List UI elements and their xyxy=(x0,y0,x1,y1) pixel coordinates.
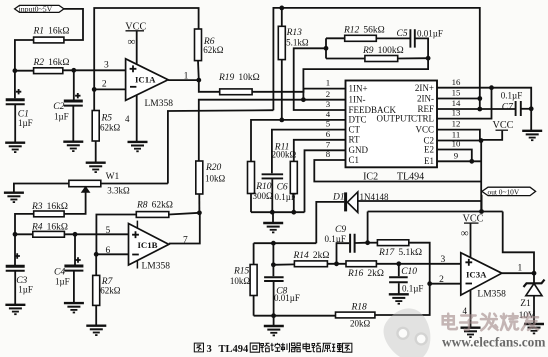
svg-text:1IN+: 1IN+ xyxy=(349,83,368,93)
node out (out 0~10V) flag xyxy=(482,187,536,195)
svg-text:D1: D1 xyxy=(332,192,345,202)
wire ground bus stem xyxy=(272,212,274,222)
svg-text:∞: ∞ xyxy=(461,227,469,239)
label VCC underline (IC3A) xyxy=(464,222,479,224)
wire TL494 pin4 DTC to R10 xyxy=(251,120,346,162)
plus C4 xyxy=(75,257,80,262)
svg-text:1µF: 1µF xyxy=(54,112,69,122)
junction IC1A pin2 node xyxy=(92,87,97,92)
svg-text:3: 3 xyxy=(441,255,446,265)
wire C10 top lead xyxy=(398,264,400,276)
ground C7 xyxy=(522,131,542,140)
svg-text:1: 1 xyxy=(518,264,523,274)
ground C4 xyxy=(64,303,84,312)
junction pin14 REF / rail xyxy=(477,107,482,112)
resistor R1 xyxy=(34,37,64,43)
wire out rail xyxy=(368,211,503,213)
wire IC1A pin4 to ground xyxy=(136,95,138,141)
wire TL494 pin11 C2 lead xyxy=(437,140,481,142)
wire C5 right to pin2 net xyxy=(303,38,428,99)
resistor R19 xyxy=(220,89,252,95)
svg-text:R162kΩ: R162kΩ xyxy=(347,269,384,279)
junction rail / R13 top xyxy=(279,6,284,11)
svg-text:R142kΩ: R142kΩ xyxy=(293,251,330,261)
svg-text:OUTPUT: OUTPUT xyxy=(377,113,413,123)
junction R14 left node xyxy=(271,262,276,267)
wire Z1 top lead xyxy=(533,273,535,283)
wire bus243 xyxy=(254,242,317,244)
junction pin2 / C5-net xyxy=(301,97,306,102)
wire R2 left lead xyxy=(15,70,34,72)
svg-text:IC1A: IC1A xyxy=(135,75,156,85)
op-amp IC1B plus input mark xyxy=(132,231,139,238)
capacitor C6 plates xyxy=(262,174,284,178)
wire C2 to ground xyxy=(72,106,74,141)
resistor R18 xyxy=(336,312,375,318)
junction C9 right / R17 xyxy=(365,240,370,245)
plus C1 xyxy=(16,89,21,94)
wire input to R1 xyxy=(64,9,83,40)
svg-text:7: 7 xyxy=(183,235,188,245)
ground IC3A pin4 xyxy=(461,328,481,337)
svg-text:C1: C1 xyxy=(349,155,360,165)
svg-text:4: 4 xyxy=(326,109,331,119)
svg-text:LM358: LM358 xyxy=(145,99,174,109)
wire R5 top lead xyxy=(93,89,95,110)
svg-text:300Ω: 300Ω xyxy=(253,191,274,201)
wire R14 left lead xyxy=(273,263,294,265)
wire R5 to ground xyxy=(95,141,97,162)
junction node A (R1/R2/C1) xyxy=(13,68,18,73)
svg-text:20kΩ: 20kΩ xyxy=(350,319,371,329)
wire C10 bottom lead xyxy=(398,283,400,293)
wire R18 ground wire xyxy=(254,315,336,317)
wire C4 top lead xyxy=(74,234,76,265)
wire TL494 pin13 CTRL up to pin16 xyxy=(437,88,492,119)
op-amp U3 IC3A triangle xyxy=(461,253,502,295)
ground IC1A pin4 xyxy=(128,142,148,151)
svg-text:C10: C10 xyxy=(401,267,417,277)
svg-text:C6: C6 xyxy=(277,182,288,192)
svg-text:2IN-: 2IN- xyxy=(417,93,434,103)
svg-text:16: 16 xyxy=(452,77,461,87)
svg-text:10kΩ: 10kΩ xyxy=(230,276,251,286)
svg-text:DTC: DTC xyxy=(349,115,367,125)
op-amp IC1B top pin stub xyxy=(136,221,138,228)
resistor R16 xyxy=(346,261,376,267)
ground W1 xyxy=(4,193,24,202)
wire IC3A pin4 to ground xyxy=(470,290,472,327)
wire R8 left to pin6 node xyxy=(96,215,136,255)
resistor R2 xyxy=(34,68,63,74)
wire C8 bottom lead xyxy=(273,282,275,316)
svg-text:1N4148: 1N4148 xyxy=(360,192,389,202)
svg-text:GND: GND xyxy=(349,145,369,155)
svg-text:R316kΩ: R316kΩ xyxy=(31,202,68,212)
resistor R11 xyxy=(290,161,297,193)
IC U2 TL494 box xyxy=(346,81,438,168)
junction pin6/R7/R8 node xyxy=(94,252,99,257)
svg-text:2: 2 xyxy=(439,275,444,285)
caption 回路控制器电路原理图 glyphs xyxy=(250,343,259,352)
wire TL494 pin8 C1 to E1/E2 net xyxy=(314,160,481,182)
wire R16 to IC3A pin3 xyxy=(376,263,460,265)
wire W1 wiper to R3 xyxy=(64,192,86,214)
resistor R17 xyxy=(377,240,408,246)
junction R14/R16/C9 node xyxy=(334,261,339,266)
wire C2 top lead xyxy=(73,70,75,99)
op-amp IC3A plus input mark xyxy=(465,259,472,266)
wire IC1B pin6 lead xyxy=(96,253,128,255)
ground C10 xyxy=(389,294,409,303)
resistor R12 xyxy=(345,35,377,41)
svg-text:VCC: VCC xyxy=(415,124,434,134)
svg-text:14: 14 xyxy=(452,98,461,108)
svg-text:5: 5 xyxy=(106,226,111,236)
op-amp IC3A minus input mark xyxy=(466,283,473,285)
wire W1 left to ground xyxy=(14,184,69,193)
junction R4/C4 node xyxy=(73,232,78,237)
wire TL494 pin14 REF to C7 xyxy=(437,108,515,110)
junction R12/R9 node xyxy=(324,46,329,51)
svg-text:input0~5V: input0~5V xyxy=(19,5,53,14)
potentiometer W1 wiper arrow xyxy=(82,187,90,193)
junction output/Z1 node xyxy=(532,271,537,276)
svg-text:R1910kΩ: R1910kΩ xyxy=(218,73,260,83)
wire out flag to rail xyxy=(481,195,483,212)
junction pin15 2IN- / rail xyxy=(477,96,482,101)
junction C6/ground bus xyxy=(270,210,275,215)
wire R12 to C5 xyxy=(376,37,409,39)
wire VCC net vertical to out rail xyxy=(480,141,482,212)
wire VCC lead IC3A pin8 xyxy=(470,223,472,257)
wire IC3A pin2 lead xyxy=(430,283,461,285)
ground C1 xyxy=(5,143,25,152)
svg-text:www.elecfans.com: www.elecfans.com xyxy=(442,335,545,350)
wire R17 left lead xyxy=(368,242,378,244)
label VCC underline (TL494) xyxy=(496,129,509,131)
wire R8 right lead xyxy=(169,213,200,215)
op-amp IC1A plus input mark xyxy=(130,65,137,72)
ground C2 xyxy=(63,142,83,151)
wire C3 to ground xyxy=(14,271,16,304)
svg-text:0.01µF: 0.01µF xyxy=(274,293,300,303)
wire pin2 node down to R18 xyxy=(375,284,430,315)
svg-text:RT: RT xyxy=(349,135,360,145)
svg-text:R15: R15 xyxy=(233,267,250,277)
wire TL494 pin6 RT to R11 xyxy=(294,140,346,162)
capacitor C9 plates xyxy=(350,234,355,253)
wire R3 left lead xyxy=(15,214,34,234)
svg-text:R862kΩ: R862kΩ xyxy=(136,201,173,211)
junction pin11/VCC node xyxy=(479,138,484,143)
svg-text:1IN-: 1IN- xyxy=(349,95,366,105)
watermark text 电子发烧友 xyxy=(443,314,457,330)
wire TL494 pin2 to R20 xyxy=(199,100,346,161)
svg-text:∞: ∞ xyxy=(128,36,136,48)
svg-text:1µF: 1µF xyxy=(18,285,33,295)
svg-text:15: 15 xyxy=(452,88,461,98)
svg-text:C2: C2 xyxy=(53,102,64,112)
capacitor C8 plates xyxy=(264,277,284,281)
svg-text:1: 1 xyxy=(184,71,189,81)
ground Z1 xyxy=(524,324,544,333)
svg-text:2IN+: 2IN+ xyxy=(415,83,434,93)
capacitor C1 xyxy=(6,98,25,101)
wire C8 net vertical xyxy=(272,243,274,276)
svg-text:9: 9 xyxy=(454,150,459,160)
svg-text:R18: R18 xyxy=(351,302,368,312)
junction R8/R20/output node xyxy=(197,210,202,215)
wire TL494 pin12 VCC lead xyxy=(437,130,480,141)
wire D1 cathode to bus243 xyxy=(316,202,344,243)
wire R11 bottom lead xyxy=(293,194,295,213)
wire C3 top lead xyxy=(14,234,16,265)
svg-text:R20: R20 xyxy=(205,163,222,173)
wire R9 right lead xyxy=(398,57,428,59)
junction R13/DTC xyxy=(279,118,284,123)
wire R2 to IC1A pin3 xyxy=(63,69,126,71)
svg-text:VCC: VCC xyxy=(493,120,514,131)
svg-text:0.1µF: 0.1µF xyxy=(402,283,423,293)
watermark logo pick xyxy=(376,301,442,357)
wire rail down to REF xyxy=(479,99,481,110)
op-amp IC1A minus input mark xyxy=(130,86,136,88)
svg-text:3: 3 xyxy=(207,344,212,355)
wire ground bus xyxy=(251,211,305,213)
plus C2 xyxy=(75,93,80,98)
resistor R3 xyxy=(34,211,64,217)
junction C10 tap xyxy=(396,261,401,266)
svg-text:0.1µF: 0.1µF xyxy=(325,234,346,244)
diode D1 1N4148 xyxy=(347,192,357,213)
svg-text:1µF: 1µF xyxy=(18,118,33,128)
wire R13 bottom to DTC xyxy=(281,60,283,120)
svg-text:7: 7 xyxy=(326,139,331,149)
capacitor C5 plates xyxy=(410,29,414,47)
svg-text:0.1µF: 0.1µF xyxy=(501,90,522,100)
svg-text:IC3A: IC3A xyxy=(466,270,487,280)
svg-text:12: 12 xyxy=(452,119,461,129)
wire VCC symbol to pin11 node xyxy=(481,131,502,140)
wire R9 left lead xyxy=(326,58,365,60)
svg-text:C7: C7 xyxy=(502,102,514,112)
zener diode Z1 symbol xyxy=(526,284,542,296)
svg-text:1: 1 xyxy=(326,78,330,88)
wire TL494 pin9 E1 lead xyxy=(437,160,481,162)
wire IC1B output xyxy=(169,213,200,244)
svg-text:2: 2 xyxy=(326,89,330,99)
wire C4 to ground xyxy=(73,271,75,303)
wire C1 top lead xyxy=(14,71,16,99)
wire R15 bottom lead xyxy=(253,296,255,316)
svg-text:10kΩ: 10kΩ xyxy=(205,174,226,184)
svg-text:LM358: LM358 xyxy=(477,290,506,300)
wire R15 top lead xyxy=(253,243,255,264)
wire C9 left lead xyxy=(337,243,350,264)
plus C3 xyxy=(15,253,20,258)
svg-text:62kΩ: 62kΩ xyxy=(100,123,121,133)
resistor R9 xyxy=(365,56,398,62)
wire C1 to ground xyxy=(14,104,16,142)
wire E-net to D1 anode xyxy=(358,200,481,202)
junction C7/pin16 vertical xyxy=(529,106,534,111)
svg-text:IC1B: IC1B xyxy=(138,240,158,250)
svg-text:C5: C5 xyxy=(397,29,408,39)
ground bus (C6/R10/R11/GND) xyxy=(263,223,283,232)
label VCC underline (IC1A) xyxy=(126,30,145,32)
svg-text:3.3kΩ: 3.3kΩ xyxy=(107,186,130,196)
junction E1/E2 tie xyxy=(469,159,474,164)
wire W1 right lead xyxy=(101,183,168,185)
svg-text:0.01µF: 0.01µF xyxy=(417,29,443,39)
wire VCC lead IC1A pin8 xyxy=(136,31,138,65)
junction out rail / vertical xyxy=(479,209,484,214)
wire C6 bottom lead xyxy=(271,179,273,212)
wire TL494 pin16 2IN+ to C7 right/ground xyxy=(437,88,531,130)
svg-text:CTRL: CTRL xyxy=(411,113,434,123)
wire R4 to IC1B pin5 xyxy=(64,233,128,235)
svg-text:W1: W1 xyxy=(106,172,120,182)
wire rail right down to IC3A output xyxy=(503,212,534,274)
svg-text:6: 6 xyxy=(106,246,111,256)
wire ground stem C8 xyxy=(273,316,275,326)
resistor R6 xyxy=(195,29,202,61)
wire IC1A pin2 node vertical + top feedback to R6 xyxy=(94,8,198,89)
wire R19 to TL494 pin1 xyxy=(252,89,345,92)
wire R1 left down to node A xyxy=(15,40,34,71)
wire output down to R19 xyxy=(199,80,220,92)
wire REF rail xyxy=(273,8,479,110)
junction R11/ground bus xyxy=(291,210,296,215)
junction bus243/C8 vertical xyxy=(271,241,276,246)
svg-text:Z1: Z1 xyxy=(520,299,531,309)
wire rail left down to C9 node xyxy=(367,212,369,243)
capacitor C7 plates xyxy=(516,101,521,116)
junction R3/R4/C3 node xyxy=(13,232,18,237)
resistor R15 xyxy=(250,265,257,296)
wire TL494 pin3 FEEDBACK to R12/R9 node xyxy=(294,48,346,110)
ground C3 xyxy=(5,305,25,314)
wire R13 top lead xyxy=(281,8,283,26)
resistor R7 xyxy=(93,275,100,305)
wire R12 left lead xyxy=(326,37,345,39)
wire W1 right to rail xyxy=(168,110,274,183)
junction pin16/pin13 tie xyxy=(489,85,494,90)
wire R12-R9 tie vertical xyxy=(325,38,327,58)
svg-text:200kΩ: 200kΩ xyxy=(272,150,297,160)
caption 图 glyph xyxy=(194,343,203,352)
wire R10 bottom lead xyxy=(250,194,252,213)
wire Z1 to ground xyxy=(533,296,535,324)
svg-text:E1: E1 xyxy=(424,156,434,166)
junction IC1A output / R6 / R19 / R20 node xyxy=(196,78,201,83)
resistor R8 xyxy=(136,212,169,218)
wire IC3A output xyxy=(502,272,534,274)
svg-text:REF: REF xyxy=(417,104,434,114)
capacitor C3 xyxy=(6,265,25,268)
resistor R5 xyxy=(92,111,99,142)
svg-text:R175.1kΩ: R175.1kΩ xyxy=(378,248,422,258)
svg-text:R416kΩ: R416kΩ xyxy=(31,222,68,232)
svg-text:R216kΩ: R216kΩ xyxy=(33,58,70,68)
resistor R10 xyxy=(248,162,255,194)
svg-text:3: 3 xyxy=(326,99,331,109)
svg-text:1µF: 1µF xyxy=(55,276,70,286)
wire R17 right to pin2 node xyxy=(409,243,430,284)
svg-text:62kΩ: 62kΩ xyxy=(100,285,121,295)
svg-text:LM358: LM358 xyxy=(142,261,171,271)
capacitor C10 plates xyxy=(389,277,408,282)
resistor R4 xyxy=(33,231,65,237)
op-amp U1 IC1A triangle xyxy=(126,59,169,101)
wire R14 right lead xyxy=(327,263,346,265)
wire R7 top lead xyxy=(95,254,97,275)
svg-text:CT: CT xyxy=(349,124,361,134)
svg-text:3: 3 xyxy=(104,61,109,71)
node input (input0~5V) flag xyxy=(15,5,64,12)
svg-text:R1256kΩ: R1256kΩ xyxy=(343,25,385,35)
junction R9/C5 xyxy=(426,56,431,61)
svg-text:R9100kΩ: R9100kΩ xyxy=(362,46,404,56)
svg-text:62kΩ: 62kΩ xyxy=(203,45,224,55)
capacitor C4 xyxy=(64,265,83,268)
wire IC1A pin2 lead xyxy=(94,88,125,90)
svg-text:5.1kΩ: 5.1kΩ xyxy=(286,37,309,47)
wire R6 bottom lead xyxy=(197,61,200,81)
svg-text:2: 2 xyxy=(102,79,107,89)
potentiometer W1 body xyxy=(69,180,101,186)
op-amp IC1B minus input mark xyxy=(132,254,139,256)
wire IC1A output xyxy=(168,79,199,81)
svg-text:E2: E2 xyxy=(424,144,434,154)
wire TL494 pin15 lead xyxy=(437,98,480,100)
resistor R14 xyxy=(294,261,327,267)
resistor R13 xyxy=(278,26,285,59)
wire TL494 pin10 E2 lead xyxy=(437,150,472,162)
svg-text:out 0~10V: out 0~10V xyxy=(488,187,520,196)
wire C9 right lead xyxy=(355,242,367,244)
junction C2 tap xyxy=(71,68,76,73)
wire C7 right lead xyxy=(521,108,531,110)
svg-text:R116kΩ: R116kΩ xyxy=(33,27,70,37)
op-amp IC1B bottom pin stub xyxy=(136,261,138,269)
wire TL494 pin7 GND to bus xyxy=(305,150,346,212)
junction C8/R18/ground xyxy=(271,313,276,318)
op-amp U1B IC1B triangle xyxy=(129,224,169,266)
resistor R20 xyxy=(196,161,203,194)
wire R4 left lead xyxy=(15,233,33,235)
svg-text:4: 4 xyxy=(125,114,130,124)
junction IC3A pin2/R17/R18 node xyxy=(427,281,432,286)
capacitor C2 xyxy=(64,100,83,103)
wire TL494 pin5 CT to C6 xyxy=(272,130,346,174)
ground C8/R18 xyxy=(264,326,284,335)
wire R20 bottom lead xyxy=(198,194,200,213)
wire R7 to ground xyxy=(95,305,97,325)
ground R7 xyxy=(86,326,106,335)
ground R5 xyxy=(86,163,106,172)
svg-text:TL494: TL494 xyxy=(219,344,250,355)
